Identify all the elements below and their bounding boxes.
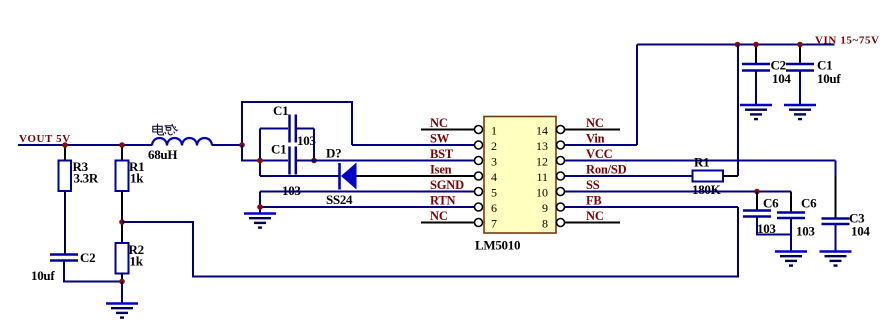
pin 10 SS (right) [557,188,565,196]
pin 7 NC (left) [421,222,475,224]
node dot C1 left [257,158,263,164]
wire SW to pin 2 [352,144,475,146]
wire inner loop [260,128,288,130]
ground G4 [799,71,801,106]
wire VOUT drop to C1 row [242,145,288,161]
pin 1 NC (left) [421,129,475,131]
pin 14 NC (right) [565,129,621,131]
inductor L1 68uH [152,138,212,145]
wire diode cathode run [260,175,340,177]
svg-text:C1: C1 [273,103,288,118]
capacitor C3 104 [835,176,837,218]
ground G1 [121,282,123,304]
svg-text:14: 14 [536,124,548,138]
diode D? SS24 [338,163,341,190]
svg-text:4: 4 [491,170,497,184]
svg-text:BST: BST [430,147,454,161]
svg-text:NC: NC [586,116,604,130]
wire VIN top rail [637,44,835,46]
wire R3 to C2 [64,191,66,255]
wire inductor to loop [212,144,243,146]
svg-text:RTN: RTN [430,194,456,208]
svg-text:NC: NC [430,116,448,130]
capacitor C1 lower 103 [288,147,291,175]
ground G3 [755,71,757,106]
svg-text:11: 11 [536,170,548,184]
svg-text:C6: C6 [801,196,817,211]
svg-text:10: 10 [536,186,548,200]
wire BST to pin 3 [297,160,475,162]
pin 13 Vin (right) [557,141,565,149]
svg-text:7: 7 [491,217,497,231]
pin 9 FB (right) [557,203,565,211]
wire C6 to ground [790,218,792,251]
svg-text:1: 1 [491,124,497,138]
pin 6 RTN (left) [475,203,483,211]
svg-text:180K: 180K [692,182,722,197]
svg-text:R1: R1 [694,155,709,170]
wire Isen lead to pin 4 [357,175,475,177]
ground G6 [820,252,852,266]
label 电感 (inductor) [153,124,178,136]
node dot SS/C6 [754,189,760,195]
resistor R3 [64,145,66,161]
wire C2 bottom to R2 bottom [64,261,122,282]
svg-text:Isen: Isen [430,163,452,177]
wire SW top loop [242,102,352,145]
svg-text:104: 104 [851,224,870,239]
wire VOUT rail [18,144,152,146]
wire R2 bottom lead [121,274,123,282]
svg-text:C2: C2 [80,250,95,265]
svg-text:13: 13 [536,139,548,153]
node dot VOUT/R1 [119,142,125,148]
resistor R2 1k [121,222,123,243]
svg-text:1k: 1k [130,254,144,269]
svg-text:SS24: SS24 [326,192,353,207]
svg-text:Ron/SD: Ron/SD [586,163,627,177]
op-amp U1 LM5010 body [484,117,556,234]
wire Vin pin to top rail [565,144,638,146]
svg-text:8: 8 [542,217,548,231]
node dot C1 right / BST [311,158,317,164]
svg-text:D?: D? [326,146,341,161]
node dot VIN/R1 feed [735,42,741,48]
svg-text:68uH: 68uH [148,147,177,162]
wire C6 bottoms join [757,217,791,235]
pin 8 NC (right) [565,222,621,224]
ground G5 [775,252,807,266]
capacitor C6 right 103 [790,192,792,213]
node dot R1/R2 junction [119,219,125,225]
pin 11 Ron/SD (right) [557,172,565,180]
node dot C2/rail [753,42,759,48]
wire top rail down to R1 [737,45,739,177]
wire Ron/SD to R1 [565,175,693,177]
svg-text:2: 2 [491,139,497,153]
svg-text:5: 5 [491,186,497,200]
ground G2 [244,214,276,228]
node dot C1/rail [797,42,803,48]
capacitor C6 left 103 [756,192,758,211]
svg-text:SGND: SGND [430,178,464,192]
pin 3 BST (left) [475,157,483,165]
capacitor C2 104 (input) [755,45,757,64]
node dot VOUT/R3 [62,142,68,148]
wire C3 to ground [835,224,837,251]
svg-text:6: 6 [491,201,497,215]
svg-text:12: 12 [536,155,548,169]
wire VCC to C3 [565,160,836,162]
svg-text:C1: C1 [271,142,286,157]
svg-text:NC: NC [430,209,448,223]
svg-text:LM5010: LM5010 [475,238,520,253]
svg-text:104: 104 [772,71,791,86]
resistor R1 1k [121,145,123,161]
svg-text:SS: SS [586,178,600,192]
pin 4 Isen (left) [475,172,483,180]
svg-text:3: 3 [491,155,497,169]
wire FB divider tap to bottom run [122,207,738,277]
svg-text:Vin: Vin [586,132,605,146]
node dot loop/VOUT [239,142,245,148]
svg-text:3.3R: 3.3R [74,171,99,186]
wire SGND to pin 5 [260,191,475,193]
svg-text:10uf: 10uf [31,268,55,283]
svg-text:1k: 1k [130,171,144,186]
svg-text:VCC: VCC [586,147,613,161]
svg-text:C6: C6 [763,196,779,211]
pin 12 VCC (right) [557,157,565,165]
pin 2 SW (left) [475,141,483,149]
capacitor C1 upper 103 [288,115,291,143]
svg-text:10uf: 10uf [817,71,841,86]
wire SS to C6 pair [565,191,792,193]
capacitor C2 10uf [50,253,78,256]
wire FB to divider (drawn with bottom run above) [565,206,739,208]
wire RTN to pin 6 [260,206,475,208]
node dot RTN/ground [257,204,263,210]
wire SGND down to ground [259,192,261,214]
pin 5 SGND (left) [475,188,483,196]
svg-text:9: 9 [542,201,548,215]
resistor R1 180K [693,171,724,182]
svg-text:SW: SW [430,132,450,146]
capacitor C1 10uf (input) [799,45,801,64]
wire R1 bottom lead [121,191,123,222]
svg-text:NC: NC [586,209,604,223]
svg-text:103: 103 [796,224,815,239]
svg-text:FB: FB [586,194,602,208]
node dot R2 bottom / ground [119,279,125,285]
